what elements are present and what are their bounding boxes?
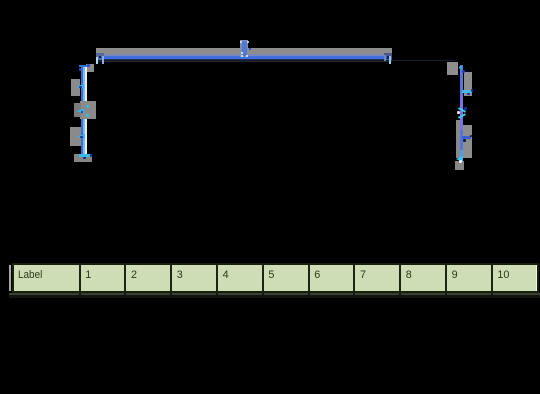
node: lower label smudge (left)	[70, 127, 81, 147]
node: cell divider 8	[399, 265, 401, 291]
wire: top dimension line (blue horizontal)	[98, 54, 390, 56]
node: cell divider 1	[79, 265, 81, 291]
node: cell text 10	[497, 270, 509, 281]
node: cell text 7	[360, 270, 366, 281]
node: right-line upper-right smudge	[464, 72, 473, 96]
node: right-line mid-left smudge	[456, 120, 460, 158]
node: left end ornament of top line	[96, 57, 98, 64]
node: cell text 3	[177, 270, 183, 281]
node: lower arrow on left line	[77, 134, 85, 139]
node: gray smudge left of top-line start	[86, 64, 94, 73]
node: cell divider 2	[124, 265, 126, 291]
node: cell text 5	[268, 270, 274, 281]
node: top dots of right line	[459, 66, 462, 69]
node: cell text 6	[314, 270, 320, 281]
node: table outer frame	[12, 263, 540, 293]
node: cell text Label	[18, 270, 42, 281]
node: cell text 9	[452, 270, 458, 281]
node: bottom arrow of right line	[456, 156, 463, 162]
node: cell divider 10	[491, 265, 493, 291]
node: top label smudge (right line, left side)	[447, 62, 458, 75]
node: right-line bottom smudge	[455, 161, 464, 170]
wire: dark under-strip of top line	[98, 61, 392, 63]
node: table bottom shadow strip	[9, 293, 540, 296]
node: center smudge cluster (left line)	[80, 101, 96, 119]
node: upper tick of right line	[462, 90, 472, 93]
node: top tick of left line	[79, 65, 90, 67]
node: center arrow (left line)	[76, 109, 84, 114]
wire: white companion line (left brace)	[85, 66, 87, 155]
node: cell divider 6	[308, 265, 310, 291]
node: center star marks (right line)	[457, 107, 465, 113]
node: center label glyph on top line	[240, 40, 249, 57]
node: cell text 8	[406, 270, 412, 281]
node: bottom smudge (left line)	[74, 154, 92, 162]
node: right end ornament of top line	[384, 55, 386, 61]
node: cell text 4	[223, 270, 229, 281]
node: inner highlight right edge	[536, 265, 538, 291]
node: cell divider 4	[216, 265, 218, 291]
node: cell text 2	[131, 270, 137, 281]
node: right-line lower-right smudge	[463, 125, 472, 158]
node: cell divider 9	[445, 265, 447, 291]
node: upper label smudge (left)	[71, 79, 81, 96]
wire: right vertical dimension line	[460, 65, 464, 162]
wire: gray band above top dimension line	[96, 48, 392, 54]
node: bottom tick of left line	[79, 154, 92, 157]
node: upper arrow on left line	[76, 84, 84, 89]
node: right end ornament backdrop	[384, 53, 392, 60]
node: light-gray tick left of table	[9, 265, 11, 291]
wire: left vertical dimension line	[81, 65, 83, 159]
node: cell divider 5	[262, 265, 264, 291]
node: cell divider 7	[353, 265, 355, 291]
node: cell divider 3	[170, 265, 172, 291]
node: cell text 1	[85, 270, 91, 281]
node: lower tick of right line	[462, 136, 471, 139]
node: left end ornament backdrop	[96, 53, 104, 60]
node: table row background	[14, 265, 538, 291]
node: divider ticks through shadow strip	[79, 293, 81, 296]
node: table bottom dark line	[9, 295, 540, 298]
wire: faint navy extension line	[97, 60, 455, 62]
